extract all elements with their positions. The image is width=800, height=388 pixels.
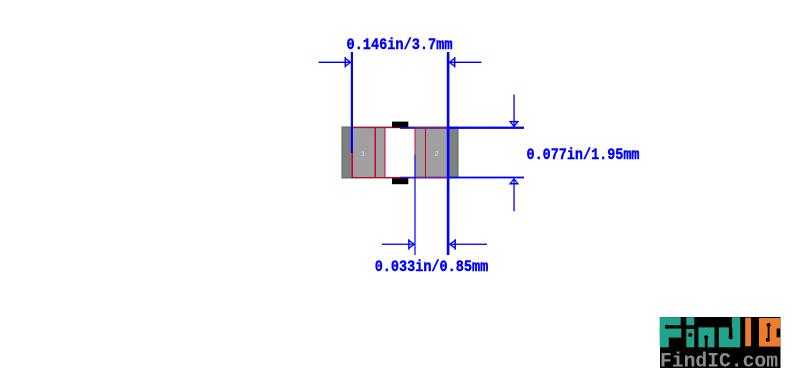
pin 2 label	[434, 151, 438, 159]
extension line top (blue)	[448, 127, 524, 129]
component body	[342, 127, 458, 178]
svg-text:2: 2	[434, 151, 438, 159]
extension line bottom (blue)	[448, 177, 524, 179]
svg-text:FindIC.com: FindIC.com	[660, 351, 778, 374]
logo letter d (teal)	[719, 317, 740, 347]
top dimension line right with arrow	[449, 57, 481, 68]
svg-text:0.033in/0.85mm: 0.033in/0.85mm	[375, 258, 489, 276]
extension line top overlap (purple)	[400, 127, 448, 129]
polarity bar bottom (black)	[392, 178, 408, 184]
top dimension line left with arrow	[319, 57, 351, 68]
logo letter n (teal)	[698, 327, 714, 347]
right dimension text	[527, 146, 640, 164]
top dimension text	[347, 36, 453, 54]
bottom dimension line left with arrow	[382, 239, 414, 250]
pad outline middle (red)	[375, 127, 425, 177]
bottom dimension text	[375, 258, 489, 276]
right dimension lower arrow line	[510, 179, 519, 211]
logo letter C (orange)	[759, 318, 780, 347]
pad 2 fill	[415, 128, 448, 177]
logo letter i (teal)	[686, 317, 694, 347]
pad outline inner (red)	[385, 127, 415, 177]
body middle white	[385, 128, 415, 177]
pad 1 fill	[352, 128, 385, 177]
extension line bottom overlap (purple)	[400, 177, 448, 179]
bottom dimension line right with arrow	[450, 239, 487, 250]
extension line left vertical (blue)	[351, 52, 353, 153]
extension line pad vertical (blue)	[414, 155, 415, 255]
pad outline outer (red)	[352, 127, 448, 177]
svg-text:1: 1	[361, 151, 365, 159]
logo background	[660, 317, 781, 368]
pin 1 label	[361, 151, 365, 159]
svg-text:0.146in/3.7mm: 0.146in/3.7mm	[347, 36, 453, 54]
right dimension upper arrow line	[510, 95, 519, 127]
logo letter I (orange)	[745, 318, 751, 347]
extension line right vertical (blue)	[447, 52, 450, 255]
svg-text:0.077in/1.95mm: 0.077in/1.95mm	[527, 146, 640, 164]
logo text FindIC.com (gray)	[660, 351, 778, 374]
logo letter F (teal)	[660, 317, 682, 347]
polarity bar top (black)	[392, 122, 408, 128]
